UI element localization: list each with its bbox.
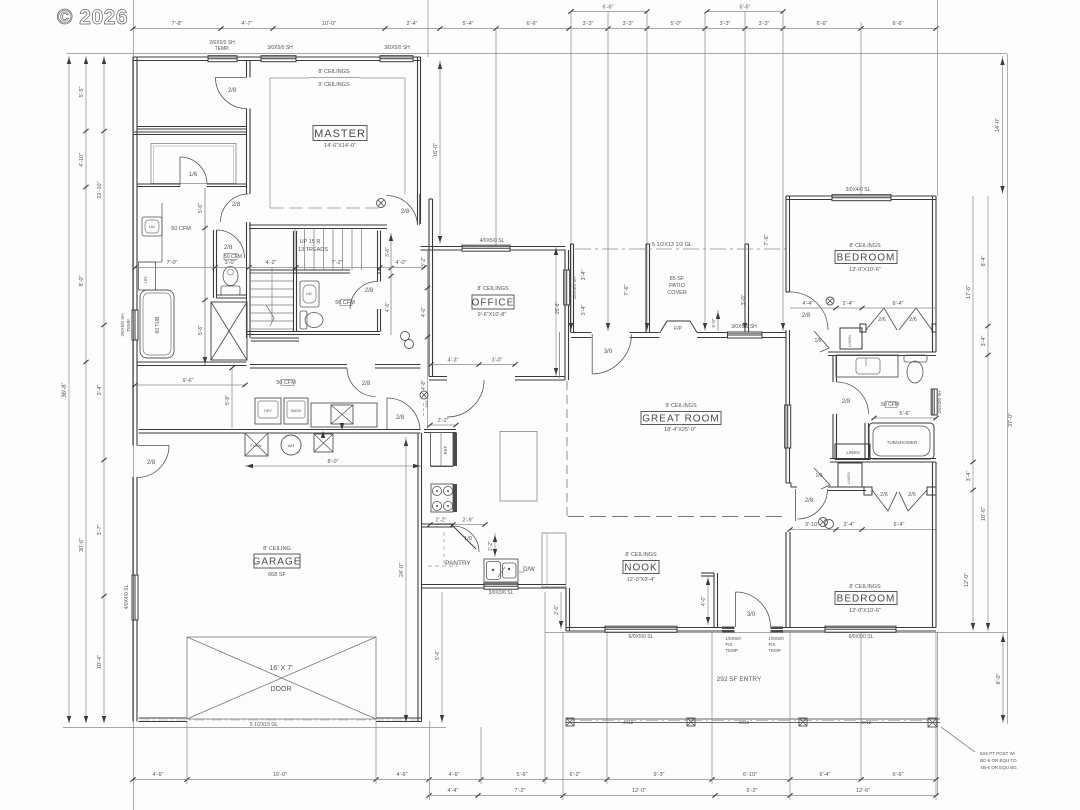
bath dim 9-6 bbox=[135, 384, 245, 386]
svg-text:2/6: 2/6 bbox=[880, 492, 888, 498]
svg-text:FURN: FURN bbox=[250, 443, 261, 448]
svg-text:LAV: LAV bbox=[149, 225, 156, 229]
svg-text:1/0: 1/0 bbox=[464, 536, 472, 542]
svg-text:4'-6": 4'-6" bbox=[385, 302, 391, 312]
svg-text:3'-4": 3'-4" bbox=[844, 522, 855, 528]
svg-text:3/0X5/0 SH: 3/0X5/0 SH bbox=[731, 324, 757, 330]
lav sink bbox=[142, 217, 162, 236]
svg-text:TEMP.: TEMP. bbox=[768, 648, 781, 653]
svg-text:5'-0": 5'-0" bbox=[711, 318, 716, 327]
west wall door 2/8 garage bbox=[137, 446, 169, 478]
svg-text:13 TREADS: 13 TREADS bbox=[298, 247, 328, 253]
svg-text:AB-6 OR EQU BG: AB-6 OR EQU BG bbox=[980, 765, 1017, 770]
closet stubs bbox=[860, 324, 866, 332]
svg-text:4'-6": 4'-6" bbox=[153, 772, 164, 778]
svg-text:4X6: 4X6 bbox=[424, 400, 429, 408]
svg-text:3'-4": 3'-4" bbox=[981, 335, 987, 346]
toilet room door 2/8 bbox=[217, 230, 245, 258]
svg-text:1/0X6/0: 1/0X6/0 bbox=[768, 636, 784, 641]
svg-text:2/8: 2/8 bbox=[147, 460, 156, 466]
bath hall wall bbox=[137, 184, 180, 187]
svg-text:4'-8": 4'-8" bbox=[421, 380, 427, 390]
svg-text:2'-4": 2'-4" bbox=[407, 21, 418, 27]
svg-text:6X6 PT POST W/: 6X6 PT POST W/ bbox=[980, 751, 1016, 756]
svg-text:1/6: 1/6 bbox=[816, 473, 823, 479]
svg-text:WH: WH bbox=[288, 443, 295, 448]
svg-text:8'-0": 8'-0" bbox=[79, 275, 85, 286]
svg-text:4'-10": 4'-10" bbox=[79, 153, 85, 167]
svg-text:2/8: 2/8 bbox=[842, 399, 851, 405]
laundry door 2/8 bbox=[347, 368, 376, 397]
svg-text:3'-4": 3'-4" bbox=[581, 269, 587, 280]
svg-text:4X12: 4X12 bbox=[861, 720, 872, 725]
porch beam bbox=[566, 718, 940, 720]
bath2 window bbox=[931, 389, 937, 415]
linen LIN bbox=[139, 262, 156, 290]
door to kitchen 2/8 bbox=[387, 398, 420, 430]
bath vdim x232 bbox=[231, 368, 233, 428]
master 9ft ceiling break bbox=[270, 77, 309, 79]
left dim line col2 bbox=[85, 56, 87, 723]
bedroom window extension lines bbox=[937, 0, 939, 196]
office smoke detectors bbox=[401, 332, 410, 341]
fireplace F/P bbox=[660, 321, 697, 333]
linen2 walls bbox=[828, 487, 866, 491]
svg-text:8' CEILING: 8' CEILING bbox=[263, 546, 291, 552]
svg-text:5'-4": 5'-4" bbox=[463, 21, 474, 27]
kitchen window 3/0x3/6 bbox=[484, 583, 518, 589]
right dim 8-0 porch bbox=[1002, 633, 1004, 723]
svg-text:3'-7": 3'-7" bbox=[97, 524, 103, 535]
svg-text:TEMP.: TEMP. bbox=[126, 318, 131, 331]
svg-text:2'-2": 2'-2" bbox=[438, 418, 449, 424]
svg-text:4'-6": 4'-6" bbox=[701, 596, 707, 606]
svg-text:37'-0": 37'-0" bbox=[1008, 413, 1014, 427]
svg-text:14'-6"X14'-0": 14'-6"X14'-0" bbox=[324, 143, 356, 149]
pantry vdim 2-2 bbox=[494, 533, 496, 557]
svg-text:3'-3": 3'-3" bbox=[720, 21, 731, 27]
pantry corner door 2/0 bbox=[451, 524, 476, 549]
master tub 60 TUB bbox=[140, 290, 174, 358]
room2 north wall bbox=[134, 132, 247, 135]
stair bottom wall bbox=[250, 270, 350, 273]
WIC south wall bbox=[137, 127, 247, 130]
svg-text:5'-6": 5'-6" bbox=[900, 411, 911, 417]
svg-text:TUB/SHOWER: TUB/SHOWER bbox=[887, 440, 918, 445]
office east wall bbox=[565, 250, 569, 380]
svg-text:8' CEILINGS: 8' CEILINGS bbox=[477, 286, 509, 292]
svg-text:6'-6": 6'-6" bbox=[740, 5, 751, 11]
patio pier wall B bbox=[745, 244, 749, 333]
svg-text:2/8: 2/8 bbox=[362, 381, 371, 387]
entry south wall bbox=[718, 628, 723, 632]
svg-text:9'-6": 9'-6" bbox=[183, 378, 194, 384]
svg-text:85 SF: 85 SF bbox=[670, 276, 685, 282]
svg-text:7'-2": 7'-2" bbox=[515, 788, 526, 794]
svg-text:18'-6": 18'-6" bbox=[981, 507, 987, 521]
water heater bbox=[281, 435, 301, 455]
garage vdim 24-0 bbox=[405, 437, 407, 723]
svg-text:8' CEILINGS: 8' CEILINGS bbox=[318, 69, 350, 75]
bath dim row bbox=[135, 267, 249, 269]
svg-text:2'-2": 2'-2" bbox=[436, 518, 447, 524]
svg-text:10'-0": 10'-0" bbox=[322, 21, 336, 27]
garage door panel 16x7 bbox=[187, 637, 376, 719]
stair hall door 2/8 bbox=[221, 194, 249, 222]
svg-text:2/8: 2/8 bbox=[365, 288, 374, 294]
svg-text:WASH: WASH bbox=[291, 409, 302, 413]
linen lower1 bbox=[835, 444, 870, 460]
svg-text:8'-4": 8'-4" bbox=[981, 255, 987, 266]
great room north wall bbox=[571, 333, 592, 338]
garage dim 8-0 bbox=[245, 465, 421, 467]
svg-text:4X12: 4X12 bbox=[739, 720, 750, 725]
svg-text:2/8: 2/8 bbox=[232, 202, 241, 208]
svg-text:6'-2": 6'-2" bbox=[570, 772, 581, 778]
WIC east wall bbox=[247, 61, 251, 78]
svg-text:BC-6 OR EQU TO: BC-6 OR EQU TO bbox=[980, 758, 1017, 763]
svg-text:6'-4": 6'-4" bbox=[893, 301, 904, 307]
svg-text:5'-0": 5'-0" bbox=[671, 21, 682, 27]
svg-text:6/0X5/0 SL: 6/0X5/0 SL bbox=[629, 634, 654, 640]
svg-text:4'-3": 4'-3" bbox=[448, 358, 459, 364]
svg-text:COVER: COVER bbox=[667, 290, 687, 296]
svg-text:60 TUB: 60 TUB bbox=[155, 316, 161, 334]
svg-text:3'-3": 3'-3" bbox=[583, 21, 594, 27]
laundry north wall bbox=[250, 365, 347, 369]
svg-text:7'-0": 7'-0" bbox=[167, 260, 178, 266]
master door 2/8 bbox=[387, 194, 420, 225]
master interior dim 16-0 bbox=[439, 60, 441, 244]
fridge REF bbox=[431, 433, 454, 467]
nook east wall bbox=[714, 573, 718, 628]
svg-text:MASTER: MASTER bbox=[314, 128, 366, 140]
north window 3/0x5/0 b bbox=[380, 56, 413, 62]
landing wall bbox=[251, 338, 299, 341]
bath interior vdim x205 bbox=[204, 188, 206, 365]
svg-text:3'-4": 3'-4" bbox=[97, 384, 103, 395]
svg-text:2/6: 2/6 bbox=[878, 317, 886, 323]
south extension line bbox=[545, 632, 1007, 634]
svg-text:9'-6"X10'-8": 9'-6"X10'-8" bbox=[478, 312, 507, 318]
svg-text:668 SF: 668 SF bbox=[268, 572, 286, 578]
entry ceiling fan bbox=[420, 391, 428, 399]
svg-text:3/0X4/0 SL: 3/0X4/0 SL bbox=[846, 187, 871, 193]
svg-text:1/6: 1/6 bbox=[189, 172, 198, 178]
svg-text:2/6: 2/6 bbox=[908, 492, 916, 498]
bedroom2 north wall bbox=[786, 196, 936, 200]
svg-text:4'-2": 4'-2" bbox=[266, 260, 277, 266]
svg-text:16'-0": 16'-0" bbox=[273, 772, 287, 778]
shower x-box bbox=[211, 302, 247, 360]
svg-text:3/0: 3/0 bbox=[604, 349, 613, 355]
svg-text:17'-6": 17'-6" bbox=[966, 285, 972, 299]
entry door 3/0 bbox=[736, 592, 771, 627]
svg-text:6'-6": 6'-6" bbox=[527, 21, 538, 27]
svg-text:PATIO: PATIO bbox=[669, 283, 685, 289]
svg-text:36'-8": 36'-8" bbox=[62, 382, 68, 397]
laundry sink x-box bbox=[331, 405, 353, 424]
stair arrow bbox=[390, 233, 392, 335]
svg-text:30'-6": 30'-6" bbox=[79, 538, 85, 552]
svg-text:4/0X4/0 SL: 4/0X4/0 SL bbox=[124, 584, 130, 609]
bedroom3 west wall bbox=[786, 532, 790, 628]
svg-text:6'-4": 6'-4" bbox=[894, 522, 905, 528]
bedroom2 door 2/8 bbox=[790, 292, 828, 330]
svg-text:12'-0"X9'-4": 12'-0"X9'-4" bbox=[627, 577, 656, 583]
garage x-box2 bbox=[314, 434, 333, 452]
svg-text:50 CFM: 50 CFM bbox=[276, 380, 296, 386]
kitchen island bbox=[500, 432, 537, 502]
svg-text:5'-6": 5'-6" bbox=[198, 325, 204, 335]
svg-text:12'-0": 12'-0" bbox=[632, 788, 646, 794]
master east wall bbox=[418, 57, 421, 224]
svg-text:14'-0": 14'-0" bbox=[995, 118, 1001, 132]
svg-text:3'-0": 3'-0" bbox=[741, 294, 747, 305]
svg-text:6'-10": 6'-10" bbox=[743, 772, 757, 778]
hall dim row bbox=[249, 267, 424, 269]
svg-text:FIX: FIX bbox=[725, 642, 732, 647]
kitchen sink bbox=[484, 559, 518, 582]
stair east wall bbox=[378, 231, 381, 282]
bedroom3 south wall bbox=[790, 628, 936, 632]
svg-text:10'-4": 10'-4" bbox=[97, 655, 103, 669]
north window 3/0x5/0 a bbox=[261, 56, 296, 62]
kitchen vdim x442 bbox=[441, 592, 443, 723]
svg-text:4'-0": 4'-0" bbox=[396, 260, 407, 266]
svg-text:8'-0": 8'-0" bbox=[996, 673, 1002, 684]
svg-text:LINEN: LINEN bbox=[846, 450, 859, 455]
bath2 west wall bbox=[833, 356, 837, 383]
exterior north wall (master block) bbox=[133, 57, 421, 61]
garage south wall bbox=[139, 718, 188, 722]
long left extension line bbox=[133, 0, 135, 810]
svg-text:6'-6": 6'-6" bbox=[603, 5, 614, 11]
toilet room walls bbox=[214, 230, 217, 298]
stairwell bottom wall bbox=[247, 332, 380, 335]
svg-text:4'-7": 4'-7" bbox=[242, 21, 253, 27]
svg-text:2'-2": 2'-2" bbox=[488, 541, 494, 551]
tub wall bbox=[865, 423, 869, 459]
bath2 south wall bbox=[830, 459, 936, 463]
svg-text:3/0X5/0 SH: 3/0X5/0 SH bbox=[384, 45, 410, 51]
washer box bbox=[284, 398, 308, 424]
post note leader bbox=[941, 727, 975, 752]
door 1/6 bbox=[180, 157, 207, 186]
svg-text:2/8: 2/8 bbox=[401, 209, 410, 215]
svg-text:6'-6": 6'-6" bbox=[893, 772, 904, 778]
svg-text:7'-6": 7'-6" bbox=[624, 284, 630, 295]
svg-text:5 1/2X13 1/2 GL: 5 1/2X13 1/2 GL bbox=[652, 242, 692, 248]
svg-text:FIX: FIX bbox=[768, 642, 775, 647]
svg-text:2/6X5/0 SH: 2/6X5/0 SH bbox=[120, 313, 125, 336]
bottom dim row 1 bbox=[133, 779, 936, 781]
svg-text:4/0X5/0 SL: 4/0X5/0 SL bbox=[480, 238, 505, 244]
bath room2 inner rect bbox=[151, 144, 236, 184]
furnace bbox=[245, 433, 268, 456]
left dim line 36-8 bbox=[68, 56, 70, 723]
svg-text:LAV: LAV bbox=[306, 292, 313, 296]
patio dim 5-0 bbox=[717, 310, 719, 331]
svg-text:15'-6": 15'-6" bbox=[555, 301, 561, 314]
svg-text:7'-2": 7'-2" bbox=[332, 260, 343, 266]
svg-text:3'-3": 3'-3" bbox=[623, 21, 634, 27]
svg-text:12'-0"X10'-6": 12'-0"X10'-6" bbox=[849, 267, 881, 273]
cooktop dims bbox=[430, 524, 485, 526]
stair risers bbox=[294, 229, 296, 271]
svg-text:F/P: F/P bbox=[674, 326, 682, 332]
entry sidelight b bbox=[771, 627, 784, 633]
svg-text:8' CEILINGS: 8' CEILINGS bbox=[849, 584, 881, 590]
laundry counter bbox=[311, 403, 377, 427]
office south dims bbox=[431, 364, 515, 366]
svg-text:REF: REF bbox=[443, 445, 448, 454]
svg-text:12'-6": 12'-6" bbox=[856, 788, 870, 794]
svg-text:12'-0"X10'-6": 12'-0"X10'-6" bbox=[849, 608, 881, 614]
svg-text:6'-6": 6'-6" bbox=[817, 21, 828, 27]
bedroom2 window 3/0x4/0 bbox=[832, 195, 891, 201]
office vdim x556 bbox=[555, 246, 557, 376]
entry sidelight a bbox=[722, 627, 735, 633]
svg-text:16'-0": 16'-0" bbox=[433, 143, 439, 157]
svg-text:UP 15 R: UP 15 R bbox=[300, 239, 321, 245]
bottom-left extension line bbox=[63, 727, 446, 729]
svg-text:5'-6": 5'-6" bbox=[517, 772, 528, 778]
vanity counter bbox=[161, 203, 163, 262]
svg-text:3'-0": 3'-0" bbox=[492, 358, 503, 364]
top dimension row 2 bbox=[571, 11, 647, 13]
linen2 door 1/6 bbox=[814, 468, 830, 489]
svg-text:2/8: 2/8 bbox=[396, 415, 405, 421]
svg-text:TEMP.: TEMP. bbox=[215, 46, 230, 52]
svg-text:12'-0": 12'-0" bbox=[964, 573, 970, 587]
svg-text:8' CEILINGS: 8' CEILINGS bbox=[625, 552, 657, 558]
svg-text:BEDROOM: BEDROOM bbox=[837, 253, 896, 264]
powder west wall bbox=[294, 231, 297, 332]
svg-text:2'-9": 2'-9" bbox=[463, 518, 474, 524]
svg-text:8' CEILINGS: 8' CEILINGS bbox=[849, 243, 881, 249]
svg-text:6/0X5/0 SL: 6/0X5/0 SL bbox=[849, 634, 874, 640]
office north wall bbox=[421, 247, 566, 251]
svg-text:6'-2": 6'-2" bbox=[747, 788, 758, 794]
right extension line 37-0 bbox=[1007, 54, 1009, 724]
linen lower2 bbox=[838, 463, 862, 487]
svg-text:3/0: 3/0 bbox=[747, 612, 756, 618]
bath2 door 2/8 bbox=[837, 382, 869, 414]
north window 2/6x5/0 bbox=[208, 56, 237, 62]
svg-text:2/8: 2/8 bbox=[805, 498, 814, 504]
svg-text:DOOR: DOOR bbox=[271, 686, 292, 693]
bedroom3 window 6/0x5/0 bbox=[825, 626, 896, 632]
west wall bath window bbox=[132, 310, 138, 340]
powder door 2/8 bbox=[350, 282, 378, 310]
svg-text:5'-5": 5'-5" bbox=[79, 86, 85, 97]
great room south dashed bbox=[568, 516, 786, 518]
svg-text:292 SF ENTRY: 292 SF ENTRY bbox=[717, 676, 762, 683]
svg-text:50 CFM: 50 CFM bbox=[171, 226, 191, 232]
svg-text:LINEN: LINEN bbox=[847, 335, 852, 347]
linen door 1/6 bbox=[814, 331, 829, 352]
patio door 3/0 bbox=[592, 334, 631, 374]
svg-text:3'-10": 3'-10" bbox=[805, 522, 819, 528]
svg-text:4'-4": 4'-4" bbox=[803, 301, 814, 307]
svg-text:GARAGE: GARAGE bbox=[253, 557, 302, 568]
bedroom3 east wall bbox=[933, 462, 937, 628]
svg-text:3'-2": 3'-2" bbox=[421, 257, 427, 267]
svg-text:5'-8": 5'-8" bbox=[225, 395, 231, 405]
bottom dim row 2 bbox=[429, 795, 936, 797]
cooktop bbox=[431, 484, 453, 512]
svg-text:2/8: 2/8 bbox=[228, 88, 237, 94]
svg-text:3'-6": 3'-6" bbox=[554, 605, 560, 615]
svg-text:22'-10": 22'-10" bbox=[97, 181, 103, 198]
svg-text:3/0X5/0 SH: 3/0X5/0 SH bbox=[572, 276, 577, 299]
office door bbox=[447, 380, 484, 417]
svg-text:5'-6": 5'-6" bbox=[435, 650, 441, 660]
svg-text:1/6: 1/6 bbox=[815, 338, 822, 344]
kitchen east counter bbox=[542, 533, 566, 587]
right dim col B bbox=[987, 196, 989, 631]
great room window 3/0x5/0 bbox=[728, 332, 763, 338]
great room east wall bbox=[786, 196, 790, 292]
svg-text:D/W: D/W bbox=[523, 567, 535, 573]
svg-text:2/8: 2/8 bbox=[224, 245, 233, 251]
svg-text:4'-4": 4'-4" bbox=[448, 788, 459, 794]
great room door 2/8 bbox=[796, 489, 828, 521]
bath2 vanity bbox=[836, 355, 898, 377]
svg-text:BEDROOM: BEDROOM bbox=[837, 594, 896, 605]
extension line x496 bbox=[495, 28, 497, 248]
bath south wall bbox=[137, 362, 247, 366]
bedroom3 closet bifold bbox=[872, 490, 927, 511]
svg-text:8'-0": 8'-0" bbox=[328, 459, 339, 465]
kitchen/great room open boundary bbox=[566, 381, 568, 516]
fridge dim 2-2 bbox=[430, 424, 456, 426]
svg-text:5 1/2X15 GL: 5 1/2X15 GL bbox=[250, 722, 278, 728]
fridge wall nub bbox=[424, 430, 456, 433]
tub/shower bbox=[874, 417, 936, 419]
svg-text:3'-4": 3'-4" bbox=[966, 470, 972, 481]
svg-text:2/8: 2/8 bbox=[802, 313, 811, 319]
stair center line bbox=[271, 267, 273, 322]
patio post extension lines bbox=[570, 12, 572, 332]
exterior west wall bbox=[133, 57, 137, 446]
svg-text:3'-0": 3'-0" bbox=[225, 260, 236, 266]
ceiling fan symbol bbox=[377, 199, 386, 208]
svg-text:6'-4": 6'-4" bbox=[820, 772, 831, 778]
svg-text:5'-6": 5'-6" bbox=[198, 203, 204, 213]
svg-text:16' X 7': 16' X 7' bbox=[270, 665, 293, 672]
washer box bbox=[255, 398, 281, 424]
hall dim row B bbox=[790, 529, 936, 531]
svg-text:GREAT ROOM: GREAT ROOM bbox=[642, 414, 719, 425]
WIC door 2/8 bbox=[216, 78, 247, 109]
bedroom2 dim row bbox=[790, 307, 936, 309]
room label MASTER bbox=[313, 126, 367, 141]
svg-text:4'-6": 4'-6" bbox=[449, 772, 460, 778]
svg-text:3/0X5/0 SH: 3/0X5/0 SH bbox=[267, 45, 293, 51]
top extension line bbox=[67, 53, 1007, 55]
left dim line col3 bbox=[103, 56, 105, 723]
office west wall bbox=[429, 199, 433, 377]
entry vdim x561 bbox=[560, 592, 562, 629]
svg-text:6'-6": 6'-6" bbox=[893, 21, 904, 27]
svg-text:4'-6": 4'-6" bbox=[421, 307, 427, 317]
svg-text:2/6: 2/6 bbox=[909, 317, 917, 323]
bedroom2 jog bbox=[786, 330, 790, 338]
master east wall extension bbox=[427, 0, 429, 57]
powder toilet bbox=[300, 311, 307, 329]
